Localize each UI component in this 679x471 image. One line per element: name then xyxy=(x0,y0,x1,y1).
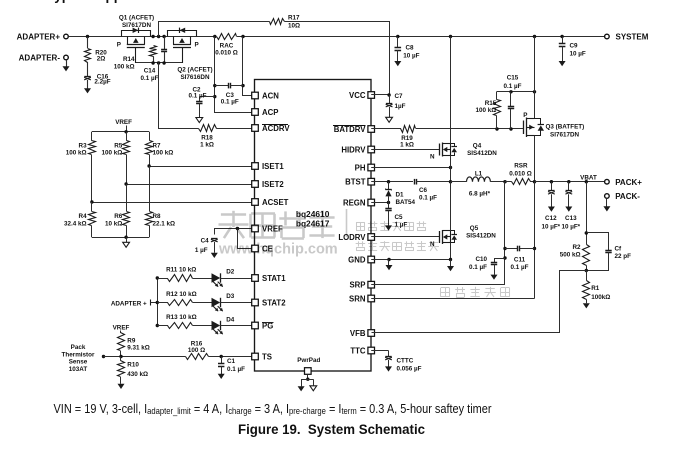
resistor R17 xyxy=(270,14,301,29)
node figure caption xyxy=(238,422,425,437)
resistor R14 xyxy=(114,46,157,71)
svg-text:R15: R15 xyxy=(485,100,497,107)
svg-text:R11 10 kΩ: R11 10 kΩ xyxy=(166,266,196,273)
svg-text:22.1 kΩ: 22.1 kΩ xyxy=(153,221,176,228)
svg-text:ADAPTER+: ADAPTER+ xyxy=(17,33,61,42)
node clipped page heading xyxy=(47,0,169,3)
node RAC right junction xyxy=(241,35,244,38)
resistor R11 xyxy=(157,266,196,281)
wire sense right vertical xyxy=(533,182,536,299)
svg-text:ACN: ACN xyxy=(262,92,279,101)
capacitor C14 xyxy=(141,37,168,83)
svg-text:CTTC: CTTC xyxy=(397,358,414,365)
svg-text:2Ω: 2Ω xyxy=(97,56,106,63)
resistor R3 xyxy=(66,132,96,202)
svg-text:STAT2: STAT2 xyxy=(262,299,286,308)
wire ACSET xyxy=(90,200,255,203)
ground below CTTC xyxy=(385,366,392,371)
node SYSTEM terminal xyxy=(605,33,649,42)
node IC pin labels xyxy=(262,91,366,362)
wire R17 rail right segment xyxy=(285,22,390,95)
ground below PACK- xyxy=(603,198,610,211)
svg-text:10 µF*: 10 µF* xyxy=(561,224,580,231)
svg-text:10 kΩ: 10 kΩ xyxy=(105,221,122,228)
svg-text:0.1 µF: 0.1 µF xyxy=(221,98,239,105)
svg-text:SRN: SRN xyxy=(349,295,366,304)
svg-text:Sense: Sense xyxy=(69,359,88,366)
svg-text:TTC: TTC xyxy=(350,347,366,356)
wire VBAT to divider xyxy=(585,182,588,245)
svg-text:P: P xyxy=(195,42,199,49)
resistor R18 xyxy=(199,125,256,149)
svg-text:0.1 µF: 0.1 µF xyxy=(469,264,487,271)
svg-text:BTST: BTST xyxy=(345,178,366,187)
svg-text:Q5: Q5 xyxy=(470,225,479,232)
resistor R1 xyxy=(583,271,611,304)
svg-text:D4: D4 xyxy=(226,316,235,323)
svg-text:R14: R14 xyxy=(123,56,135,63)
wire LED feed vertical xyxy=(156,276,159,327)
capacitor C7 xyxy=(386,93,406,117)
transistor Q4 SIS412DN xyxy=(371,143,497,161)
svg-text:0.1 µF: 0.1 µF xyxy=(189,93,207,100)
node PACK- terminal xyxy=(605,192,641,201)
node VREF net label xyxy=(115,119,132,132)
svg-text:C11: C11 xyxy=(514,256,526,263)
node VBAT to R2 junction xyxy=(585,180,588,183)
node VBAT junction Q3 xyxy=(533,180,536,183)
capacitor C1 xyxy=(218,355,245,374)
wire ISET2 xyxy=(124,182,255,185)
svg-text:D2: D2 xyxy=(226,268,235,275)
svg-text:PACK-: PACK- xyxy=(615,192,640,201)
svg-text:N: N xyxy=(430,154,435,161)
node VCC junction xyxy=(387,93,390,96)
resistor R6 xyxy=(105,184,130,237)
svg-text:C14: C14 xyxy=(144,68,156,75)
node bottom annotation text xyxy=(54,401,493,416)
capacitor C2 xyxy=(189,86,215,117)
svg-text:BAT54: BAT54 xyxy=(396,199,416,206)
svg-text:C4: C4 xyxy=(201,237,210,244)
ground below C9 xyxy=(559,61,566,66)
svg-text:VBAT: VBAT xyxy=(580,174,597,181)
wire PH lead xyxy=(371,156,452,182)
wire R15 C15 top tie xyxy=(497,90,537,93)
svg-text:6.8 µH*: 6.8 µH* xyxy=(469,191,491,198)
transistor Q1 (ACFET) SI7617DN xyxy=(117,15,154,64)
resistor R5 xyxy=(101,132,129,184)
svg-text:1 kΩ: 1 kΩ xyxy=(200,142,214,149)
node PACK+ terminal xyxy=(605,178,643,187)
node Pack Thermistor Sense label xyxy=(62,344,106,373)
ground below Q5 source xyxy=(447,260,454,272)
svg-text:REGN: REGN xyxy=(343,199,366,208)
svg-text:R17: R17 xyxy=(288,14,300,21)
node ADAPTER + stub xyxy=(111,300,157,308)
svg-text:SI7617DN: SI7617DN xyxy=(122,22,152,29)
svg-text:Cf: Cf xyxy=(615,245,623,252)
transistor Q3 (BATFET) SI7617DN xyxy=(523,35,584,182)
ground below C16 xyxy=(84,88,91,93)
ground on GND rail left xyxy=(386,260,393,271)
wire SRP lead xyxy=(371,284,505,286)
svg-text:TS: TS xyxy=(262,353,272,362)
svg-text:100 kΩ: 100 kΩ xyxy=(114,64,135,71)
capacitor C12 xyxy=(541,180,560,231)
svg-text:ACDRV: ACDRV xyxy=(262,124,290,133)
resistor R8 xyxy=(146,166,176,237)
wire divider top rail xyxy=(92,130,149,133)
svg-text:C7: C7 xyxy=(395,93,404,100)
resistor R20 xyxy=(85,37,108,63)
wire BATDRV to Q3 gate xyxy=(416,127,523,130)
node L1 RSR junction xyxy=(503,180,506,183)
resistor RSR xyxy=(505,162,535,184)
svg-text:1µF: 1µF xyxy=(395,103,406,110)
svg-text:SI7616DN: SI7616DN xyxy=(180,74,210,81)
svg-text:C6: C6 xyxy=(419,187,428,194)
ground below C10 xyxy=(491,275,498,280)
svg-text:LODRV: LODRV xyxy=(338,233,366,242)
ground below C2 xyxy=(196,118,203,123)
wire sense left vertical xyxy=(503,182,506,285)
ground below C1 xyxy=(218,374,225,379)
svg-text:100kΩ: 100kΩ xyxy=(591,294,610,301)
svg-text:P: P xyxy=(117,42,121,49)
svg-text:9.31 kΩ: 9.31 kΩ xyxy=(127,345,150,352)
ground below ADAPTER- xyxy=(63,60,70,72)
svg-text:C5: C5 xyxy=(395,214,404,221)
resistor R12 xyxy=(157,291,196,306)
svg-text:C1: C1 xyxy=(227,358,236,365)
svg-text:PwrPad: PwrPad xyxy=(297,357,320,364)
resistor R10 xyxy=(118,357,149,384)
resistor R13 xyxy=(157,314,196,329)
wire VBAT rail to PACK+ xyxy=(535,174,605,181)
svg-text:C13: C13 xyxy=(565,215,577,222)
ground PwrPad right xyxy=(310,379,317,391)
svg-text:VREF: VREF xyxy=(115,119,132,126)
ground below C5 xyxy=(385,225,392,230)
wire VCC lead xyxy=(371,94,389,96)
wire ACDRV vertical xyxy=(159,63,199,129)
node ADAPTER+ terminal xyxy=(17,33,69,42)
inductor L1 xyxy=(451,170,506,197)
svg-text:STAT1: STAT1 xyxy=(262,274,286,283)
ground below R10 xyxy=(118,384,125,389)
wire divider bottom rail xyxy=(92,236,149,239)
wire adapter rail right of RAC xyxy=(237,36,605,38)
svg-text:0.1 µF: 0.1 µF xyxy=(141,75,159,82)
resistor R7 xyxy=(146,132,174,166)
wire BTST lead xyxy=(371,181,413,183)
capacitor C10 xyxy=(469,256,505,275)
svg-text:D3: D3 xyxy=(226,293,235,300)
svg-text:L1: L1 xyxy=(475,170,483,177)
capacitor Cf xyxy=(587,233,632,271)
svg-text:Typical Application: Typical Application xyxy=(47,0,169,3)
svg-text:10Ω: 10Ω xyxy=(288,23,300,30)
capacitor C4 xyxy=(195,237,218,254)
wire SRN lead xyxy=(371,298,534,300)
diode D2 LED xyxy=(193,268,255,287)
svg-text:500 kΩ: 500 kΩ xyxy=(560,252,581,259)
svg-text:Pack: Pack xyxy=(71,344,86,351)
svg-text:R5: R5 xyxy=(114,143,123,150)
resistor R16 xyxy=(186,340,256,359)
svg-text:VIN = 19 V, 3-cell, Iadapter_l: VIN = 19 V, 3-cell, Iadapter_limit = 4 A… xyxy=(54,401,493,416)
capacitor C9 xyxy=(559,35,586,61)
ground PwrPad left xyxy=(298,379,305,391)
svg-text:R13 10 kΩ: R13 10 kΩ xyxy=(166,314,197,321)
capacitor C3 xyxy=(215,83,243,106)
diode D1 BAT54 xyxy=(385,180,415,206)
svg-text:C10: C10 xyxy=(475,256,487,263)
svg-text:SIS412DN: SIS412DN xyxy=(467,150,497,157)
svg-text:1 µF: 1 µF xyxy=(195,247,208,254)
svg-text:Thermistor: Thermistor xyxy=(62,351,95,358)
svg-text:R7: R7 xyxy=(153,143,162,150)
svg-text:SIS412DN: SIS412DN xyxy=(466,233,496,240)
svg-text:R1: R1 xyxy=(591,285,600,292)
wire adapter rail xyxy=(68,36,216,38)
svg-text:430 kΩ: 430 kΩ xyxy=(127,371,148,378)
capacitor CTTC xyxy=(371,351,421,373)
svg-text:Q1 (ACFET): Q1 (ACFET) xyxy=(119,15,154,22)
svg-text:Figure 19. System Schematic: Figure 19. System Schematic xyxy=(238,422,425,437)
svg-text:0.1 µF: 0.1 µF xyxy=(419,194,437,201)
svg-text:VFB: VFB xyxy=(350,329,366,338)
svg-text:R18: R18 xyxy=(201,135,213,142)
wire BATDRV lead xyxy=(371,128,401,130)
capacitor C16 xyxy=(84,62,111,89)
svg-text:ACP: ACP xyxy=(262,108,278,117)
capacitor C6 xyxy=(415,179,451,201)
diode D4 LED xyxy=(193,316,255,334)
capacitor C15 xyxy=(504,75,522,129)
wire GND rail xyxy=(371,258,452,261)
svg-text:C12: C12 xyxy=(545,215,557,222)
ground below C4 xyxy=(211,253,218,258)
wire Q4 drain from system rail xyxy=(449,35,452,144)
svg-text:0.1 µF: 0.1 µF xyxy=(511,264,529,271)
svg-text:www.hqchip.com: www.hqchip.com xyxy=(218,242,338,258)
resistor R15 xyxy=(475,92,500,129)
svg-text:P: P xyxy=(523,112,527,119)
svg-text:Q2 (ACFET): Q2 (ACFET) xyxy=(177,67,212,74)
ground below C12 arrow xyxy=(548,207,555,212)
IC U1 bq24610 bq24617 body xyxy=(252,80,375,375)
svg-text:R12 10 kΩ: R12 10 kΩ xyxy=(166,291,197,298)
svg-text:10 µF*: 10 µF* xyxy=(541,224,560,231)
ground below R1 xyxy=(583,303,590,308)
node junctions between ACFETs on rail xyxy=(151,35,165,38)
svg-text:ISET1: ISET1 xyxy=(262,162,284,171)
wire ACN sense vertical xyxy=(241,37,254,96)
svg-text:ADAPTER-: ADAPTER- xyxy=(19,54,61,63)
wire REGN lead xyxy=(371,201,390,204)
svg-text:Q4: Q4 xyxy=(473,143,482,150)
svg-text:ISET2: ISET2 xyxy=(262,180,284,189)
resistor R9 xyxy=(118,331,150,357)
node R2 R1 junction xyxy=(585,269,588,272)
svg-text:0.010 Ω: 0.010 Ω xyxy=(215,50,238,57)
resistor R19 xyxy=(400,126,415,149)
wire CE tie to VREF xyxy=(238,229,255,249)
svg-text:32.4 kΩ: 32.4 kΩ xyxy=(64,221,87,228)
svg-text:HIDRV: HIDRV xyxy=(341,146,366,155)
wire gate rail of ACFETs xyxy=(136,61,182,64)
svg-text:0.1 µF: 0.1 µF xyxy=(504,83,522,90)
svg-text:D1: D1 xyxy=(396,191,405,198)
svg-text:R8: R8 xyxy=(153,213,162,220)
resistor R2 xyxy=(560,244,590,271)
svg-text:R4: R4 xyxy=(79,213,88,220)
wire TS rail xyxy=(104,355,186,358)
svg-text:SYSTEM: SYSTEM xyxy=(616,33,649,42)
node RAC left junction xyxy=(213,35,216,38)
transistor Q5 SIS412DN xyxy=(371,182,496,260)
svg-text:VCC: VCC xyxy=(349,91,366,100)
svg-text:R2: R2 xyxy=(572,244,581,251)
svg-text:C8: C8 xyxy=(406,44,415,51)
svg-text:100 kΩ: 100 kΩ xyxy=(475,107,496,114)
ground below C8 xyxy=(394,61,401,66)
wire VREF pin lead xyxy=(215,227,255,235)
svg-text:100 kΩ: 100 kΩ xyxy=(153,150,174,157)
wire VFB route xyxy=(372,271,587,333)
capacitor C11 xyxy=(505,246,535,271)
ground below divider xyxy=(123,237,130,247)
node PH switch node junction xyxy=(449,180,452,183)
svg-text:R10: R10 xyxy=(127,362,139,369)
svg-text:ADAPTER +: ADAPTER + xyxy=(111,301,147,308)
node ADAPTER- terminal xyxy=(19,54,69,63)
svg-text:100 kΩ: 100 kΩ xyxy=(66,150,87,157)
svg-text:0.1 µF: 0.1 µF xyxy=(227,366,245,373)
capacitor C5 xyxy=(385,203,407,229)
svg-text:100 kΩ: 100 kΩ xyxy=(101,150,122,157)
svg-text:RSR: RSR xyxy=(514,162,528,169)
resistor RAC xyxy=(215,34,238,57)
ground below C13 arrow xyxy=(565,207,572,212)
capacitor C13 xyxy=(561,180,580,231)
svg-text:PACK+: PACK+ xyxy=(615,178,642,187)
svg-text:1 kΩ: 1 kΩ xyxy=(400,142,414,149)
decor watermark xyxy=(218,209,510,298)
capacitor C8 xyxy=(395,35,420,61)
node junction R20 tap xyxy=(86,35,89,38)
diode D3 LED xyxy=(193,293,255,312)
svg-text:0.010 Ω: 0.010 Ω xyxy=(509,170,532,177)
wire ISET1 xyxy=(147,164,255,167)
node VREF label above R9 xyxy=(113,324,130,331)
svg-text:100 Ω: 100 Ω xyxy=(188,347,205,354)
svg-text:C15: C15 xyxy=(507,75,519,82)
wire R17 rail left segment xyxy=(159,22,270,37)
svg-text:BATDRV: BATDRV xyxy=(334,125,367,134)
svg-text:VREF: VREF xyxy=(113,324,130,331)
svg-text:PH: PH xyxy=(355,164,366,173)
svg-text:Q3 (BATFET): Q3 (BATFET) xyxy=(546,123,585,130)
resistor R4 xyxy=(64,202,95,237)
svg-text:SI7617DN: SI7617DN xyxy=(550,131,580,138)
transistor Q2 (ACFET) SI7616DN xyxy=(168,28,213,81)
svg-text:SRP: SRP xyxy=(349,281,365,290)
svg-text:GND: GND xyxy=(348,256,366,265)
svg-text:RAC: RAC xyxy=(220,43,234,50)
svg-text:103AT: 103AT xyxy=(69,366,88,373)
svg-text:22 pF: 22 pF xyxy=(615,253,632,260)
node PwrPad xyxy=(297,357,320,381)
ground below C7 xyxy=(386,117,393,122)
wire ACP sense vertical xyxy=(213,37,254,113)
svg-text:10 µF: 10 µF xyxy=(570,51,586,58)
svg-text:C9: C9 xyxy=(570,42,579,49)
svg-text:0.056 µF: 0.056 µF xyxy=(397,366,422,373)
svg-text:2.2µF: 2.2µF xyxy=(94,79,110,86)
svg-text:10 µF: 10 µF xyxy=(403,52,419,59)
svg-text:R3: R3 xyxy=(79,143,88,150)
svg-text:R6: R6 xyxy=(114,213,123,220)
svg-text:ACSET: ACSET xyxy=(262,198,289,207)
